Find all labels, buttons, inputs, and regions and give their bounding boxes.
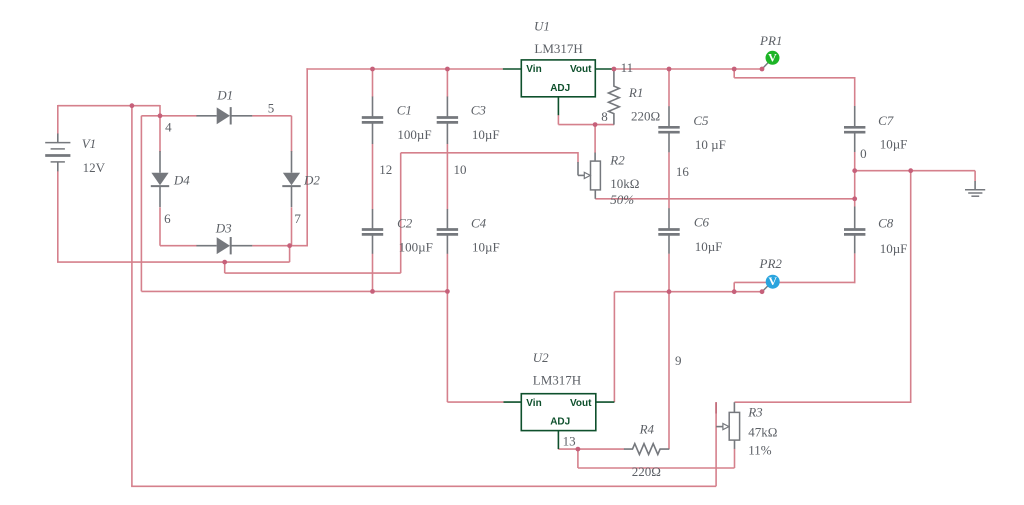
battery V1 (57, 134, 59, 143)
wire bridge top edge right (252, 115, 291, 117)
capacitor C5 (668, 106, 670, 127)
wire U2 ADJ drop (577, 449, 579, 468)
resistor R1 (609, 70, 620, 125)
svg-text:D2: D2 (303, 172, 320, 187)
svg-text:D3: D3 (215, 220, 232, 235)
wire bridge-bottom riser to top rail (306, 68, 308, 246)
svg-text:C1: C1 (397, 103, 412, 118)
svg-text:50%: 50% (610, 192, 634, 207)
potentiometer R3 (733, 402, 735, 412)
svg-text:0: 0 (860, 146, 867, 161)
wire U2 ADJ row to R4 (558, 448, 624, 450)
wire R2 wiper drop (577, 152, 579, 163)
svg-text:6: 6 (164, 211, 171, 226)
svg-text:12: 12 (379, 162, 392, 177)
wire R3 wiper vertical (715, 402, 717, 486)
svg-text:PR1: PR1 (759, 33, 782, 48)
wire detour top row to R2 wiper (401, 152, 578, 154)
capacitor C2 (372, 209, 374, 230)
svg-text:10: 10 (454, 162, 467, 177)
wire detour riser (400, 153, 402, 273)
svg-text:10µF: 10µF (472, 240, 500, 255)
wire bridge left edge (159, 116, 161, 152)
wire R3 top row (734, 401, 911, 403)
wire node 0 to ground (855, 170, 975, 172)
svg-text:R2: R2 (609, 152, 625, 167)
svg-text:U1: U1 (534, 18, 550, 33)
svg-text:R4: R4 (639, 421, 655, 436)
svg-text:C6: C6 (694, 215, 710, 230)
wire lower-right rail (614, 291, 762, 293)
svg-text:16: 16 (676, 164, 690, 179)
wire U1 Vout rail (612, 68, 763, 70)
svg-text:C7: C7 (878, 113, 894, 128)
diode D4 (159, 151, 161, 173)
capacitor C3 (446, 97, 448, 118)
svg-text:C4: C4 (471, 216, 487, 231)
svg-text:Vin: Vin (526, 398, 541, 409)
svg-text:13: 13 (563, 434, 576, 449)
wire R3 bottom drop (734, 449, 736, 468)
svg-text:10µF: 10µF (695, 239, 723, 254)
svg-text:100µF: 100µF (397, 127, 431, 142)
svg-text:Vout: Vout (570, 64, 592, 75)
svg-text:220Ω: 220Ω (631, 109, 660, 124)
wire C7 column upper (854, 77, 856, 106)
svg-text:7: 7 (294, 211, 301, 226)
svg-text:V1: V1 (82, 136, 96, 151)
wire C3 C4 column (446, 69, 448, 97)
capacitor C4 (446, 209, 448, 230)
capacitor C6 (668, 208, 670, 229)
diode D2 (291, 151, 293, 173)
probe PR1 (762, 62, 769, 69)
svg-text:D4: D4 (173, 172, 190, 187)
svg-text:10µF: 10µF (880, 136, 908, 151)
svg-text:ADJ: ADJ (550, 83, 570, 94)
svg-text:V: V (768, 50, 777, 64)
wire ground drop (974, 171, 976, 182)
op U1 LM317H box (521, 60, 595, 97)
svg-text:9: 9 (675, 353, 682, 368)
wire U1 ADJ elbow (557, 115, 559, 125)
svg-text:ADJ: ADJ (550, 417, 570, 428)
wire ground-node vertical to R3 row (910, 171, 912, 403)
svg-text:11%: 11% (748, 442, 772, 457)
capacitor C8 (854, 207, 856, 230)
wire ADJ2 row to R3 bottom (578, 467, 735, 469)
wire battery top vertical (57, 105, 59, 134)
wire PR1 step down (733, 69, 735, 78)
svg-text:11: 11 (621, 60, 634, 75)
wire U2 Vout riser (613, 292, 615, 402)
svg-text:V: V (768, 274, 777, 288)
svg-text:LM317H: LM317H (533, 373, 581, 388)
svg-text:10µF: 10µF (880, 241, 908, 256)
wire top rail to U1 Vin (306, 68, 502, 70)
svg-text:C8: C8 (878, 215, 894, 230)
diode D1 (196, 115, 216, 117)
wire R2 bottom row to C8 column (595, 198, 854, 200)
svg-text:8: 8 (601, 109, 608, 124)
junction dots (130, 103, 135, 108)
svg-text:C3: C3 (471, 103, 487, 118)
svg-text:LM317H: LM317H (534, 41, 582, 56)
svg-text:D1: D1 (216, 88, 233, 103)
svg-text:12V: 12V (83, 160, 106, 175)
svg-text:Vin: Vin (526, 64, 541, 75)
wire riser bridge bottom-right (289, 246, 291, 262)
wire R2 top feed (594, 125, 596, 153)
wire battery top rail (58, 105, 160, 107)
wire long left vertical from battery node (131, 106, 133, 487)
capacitor C1 (372, 97, 374, 118)
wire bridge top edge left (141, 115, 196, 117)
wire C8 column lower (854, 253, 856, 283)
svg-text:47kΩ: 47kΩ (748, 425, 777, 440)
wire C7 column lower (854, 152, 856, 207)
diode D3 (196, 245, 216, 247)
svg-text:10µF: 10µF (472, 127, 500, 142)
wire C1 C2 column (372, 69, 374, 97)
wire C4 node to U2 Vin (446, 291, 448, 402)
svg-text:Vout: Vout (570, 398, 592, 409)
wire bridge right edge (291, 116, 293, 152)
wire corner battery-top to bridge (159, 105, 161, 116)
svg-text:10kΩ: 10kΩ (610, 176, 639, 191)
svg-text:5: 5 (268, 100, 275, 115)
svg-text:C2: C2 (397, 216, 413, 231)
svg-text:U2: U2 (533, 350, 549, 365)
wire lower-left rail (141, 290, 447, 292)
wire branch down from battery bottom row (224, 262, 226, 273)
svg-text:10 µF: 10 µF (695, 137, 726, 152)
svg-text:R1: R1 (628, 85, 643, 100)
svg-text:PR2: PR2 (759, 256, 783, 271)
resistor R4 (624, 444, 669, 455)
ground (974, 181, 976, 190)
wire PR2 step up (733, 282, 735, 291)
probe PR2 (762, 285, 769, 292)
wire battery bottom vertical (57, 171, 59, 262)
wire lower detour row (225, 272, 401, 274)
wire bridge bottom edge (160, 245, 197, 247)
op U2 LM317H box (521, 394, 596, 431)
svg-text:220Ω: 220Ω (632, 464, 661, 479)
potentiometer R2 (594, 153, 596, 162)
wire node4 vertical to lower rail (140, 116, 142, 292)
capacitor C7 (854, 106, 856, 127)
svg-text:R3: R3 (747, 404, 763, 419)
svg-text:4: 4 (165, 120, 172, 135)
wire bottom long rail (131, 485, 716, 487)
svg-text:100µF: 100µF (399, 240, 433, 255)
svg-text:C5: C5 (693, 113, 709, 128)
wire battery bottom row (57, 261, 290, 263)
wire C5 C6 R4 column (668, 69, 670, 106)
